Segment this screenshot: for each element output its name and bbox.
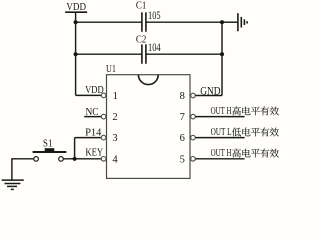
pin 6 wire OUTL — [195, 137, 244, 139]
svg-text:C2: C2 — [136, 35, 146, 46]
wire C2 right — [146, 53, 222, 55]
svg-text:7: 7 — [180, 112, 185, 123]
ground (earth, bottom left) — [2, 180, 24, 189]
svg-text:8: 8 — [180, 91, 185, 102]
label OUTH active-high pin5 — [211, 148, 279, 159]
wire C1 left — [76, 21, 142, 23]
junction dot rail-C1 — [220, 20, 224, 24]
junction dot KEY node — [73, 157, 77, 161]
junction dot VDD-C2 — [74, 52, 78, 56]
switch S1 — [33, 138, 67, 161]
pin 1 circle — [101, 93, 106, 98]
capacitor C2 — [136, 35, 161, 64]
IC U1 body — [106, 64, 190, 178]
pin 8 wire GND — [195, 95, 222, 97]
pin 7 wire OUTH — [195, 116, 244, 118]
wire right rail vertical — [221, 22, 223, 95]
wire VDD rail vertical — [75, 12, 77, 95]
pin 3 circle — [101, 135, 106, 140]
pin 5 circle — [191, 157, 196, 162]
svg-text:6: 6 — [180, 133, 185, 144]
wire S1 left to ground — [12, 159, 34, 180]
ground (earth, right-facing) — [238, 13, 247, 31]
junction dot rail-C2 — [220, 52, 224, 56]
svg-text:NC: NC — [86, 107, 99, 118]
svg-text:105: 105 — [148, 10, 161, 22]
junction dot VDD-C1 — [74, 20, 78, 24]
pin 7 circle — [191, 114, 196, 119]
pin 4 wire KEY — [63, 158, 101, 160]
pin 2 stub NC — [84, 116, 101, 118]
capacitor C1 — [136, 1, 161, 32]
svg-text:OUT H: OUT H — [211, 106, 232, 117]
svg-text:P14: P14 — [85, 127, 101, 138]
pin 1 wire VDD — [76, 94, 102, 96]
svg-text:S1: S1 — [43, 138, 53, 149]
label OUTL active-low pin6 — [211, 127, 279, 138]
wire to ground top right — [222, 21, 237, 23]
svg-text:C1: C1 — [136, 1, 146, 12]
svg-text:KEY: KEY — [85, 148, 103, 159]
svg-text:4: 4 — [112, 154, 118, 165]
svg-text:OUT L: OUT L — [211, 127, 232, 138]
label OUTH active-high pin7 — [211, 106, 279, 117]
svg-text:OUT H: OUT H — [211, 148, 232, 159]
svg-text:GND: GND — [200, 85, 220, 97]
pin 2 circle — [101, 114, 106, 119]
wire branch up from KEY node to P14 — [74, 138, 76, 159]
power VDD — [65, 2, 87, 13]
svg-text:U1: U1 — [106, 64, 116, 75]
svg-text:104: 104 — [148, 42, 161, 54]
svg-text:VDD: VDD — [66, 2, 86, 13]
pin 5 wire OUTH — [195, 158, 244, 160]
wire C2 left — [76, 53, 142, 55]
svg-text:VDD: VDD — [85, 85, 104, 96]
svg-text:2: 2 — [112, 112, 117, 123]
pin 8 circle — [191, 93, 196, 98]
svg-text:5: 5 — [180, 154, 185, 165]
svg-text:1: 1 — [113, 91, 118, 102]
pin 4 circle — [101, 157, 106, 162]
pin 6 circle — [191, 135, 196, 140]
pin 3 wire P14 — [75, 137, 102, 139]
svg-text:3: 3 — [112, 133, 117, 144]
wire C1 right — [146, 21, 222, 23]
